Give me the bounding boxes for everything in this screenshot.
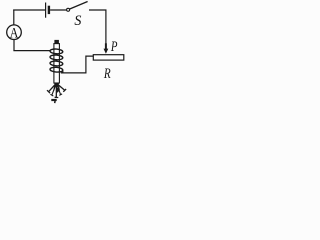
wire rheostat to coil (right, down, left): [61, 56, 94, 73]
battery B1 short plate: [48, 6, 50, 14]
wire below ammeter: [13, 40, 15, 51]
core top cap: [54, 40, 59, 44]
wire switch to right corner and down: [89, 10, 106, 44]
wire top-left horizontal: [13, 9, 45, 11]
nail cluster inner strokes: [54, 85, 60, 91]
nail cluster dark blob: [55, 87, 59, 93]
wire left vertical upper: [13, 10, 15, 25]
wire battery to switch: [50, 9, 66, 11]
iron core: [54, 44, 60, 83]
coil exit bend: [61, 71, 63, 73]
rheostat R body: [93, 55, 124, 60]
slider P arrowhead: [104, 49, 109, 54]
fallen nail point: [54, 101, 56, 104]
wire bottom-left horizontal: [13, 50, 50, 52]
nail 4 right inner: [57, 85, 62, 95]
switch S pivot: [67, 8, 70, 11]
fallen nail head bar: [51, 99, 56, 101]
switch S blade: [70, 2, 88, 10]
ammeter A1: [7, 25, 22, 40]
nail 2 left inner: [50, 85, 55, 96]
battery B1 long plate: [45, 3, 47, 18]
slider P arrow shaft: [105, 43, 107, 49]
nail 3 middle: [55, 85, 59, 98]
coil turn 1: [50, 49, 63, 55]
svg-text:S: S: [74, 13, 81, 29]
nail 5 right outer: [58, 84, 67, 92]
nail 1 left outer: [47, 84, 55, 93]
coil turn 3: [50, 61, 63, 67]
svg-text:R: R: [103, 66, 111, 82]
nail cluster neck: [54, 83, 59, 87]
svg-text:A: A: [10, 25, 19, 41]
coil turn 2: [50, 55, 63, 61]
svg-text:P: P: [110, 39, 117, 55]
coil turn 4: [50, 67, 63, 73]
